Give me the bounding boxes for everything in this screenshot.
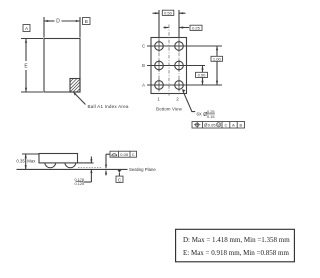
svg-text:0.25: 0.25 (192, 26, 201, 31)
datum B flag (83, 18, 91, 25)
svg-text:0.35: 0.35 (16, 159, 25, 164)
svg-text:0.50: 0.50 (164, 11, 173, 16)
svg-text:B: B (239, 122, 242, 127)
svg-text:0.05: 0.05 (208, 122, 217, 127)
svg-text:A: A (232, 122, 235, 127)
svg-text:D: Max = 1.418 mm, Min =1.358: D: Max = 1.418 mm, Min =1.358 mm (183, 236, 290, 244)
side view ball 1 (45, 163, 56, 168)
notes box (176, 229, 295, 261)
dimension 0.178/0.125 ball height (75, 157, 94, 187)
row centerline B (147, 65, 205, 67)
svg-text:0.50: 0.50 (198, 73, 207, 78)
svg-text:Bottom View: Bottom View (156, 107, 182, 112)
dimension 1.00 row span (211, 46, 223, 85)
svg-text:E: Max = 0.918 mm, Min =0.858: E: Max = 0.918 mm, Min =0.858 mm (183, 249, 289, 257)
svg-text:Ball A1 Index Area: Ball A1 Index Area (88, 104, 129, 109)
ball A1 index area hatch (70, 79, 81, 93)
side view ball 2 (65, 163, 76, 168)
bottom view vertical centerline (168, 25, 170, 96)
dimension 0.50 row pitch (196, 66, 208, 86)
dimension 0.50 column pitch (153, 10, 186, 15)
svg-text:B: B (85, 19, 88, 24)
ball A1 index area label (73, 92, 129, 109)
dimension 0.35 Max (16, 154, 39, 169)
top view package outline (44, 39, 80, 93)
svg-text:0.05: 0.05 (120, 152, 129, 157)
tolerance zone dashed line (78, 166, 101, 168)
svg-text:C: C (224, 122, 227, 127)
svg-text:D: D (56, 19, 60, 25)
svg-text:C: C (132, 152, 135, 157)
svg-text:1.00: 1.00 (213, 57, 222, 62)
dimension E (21, 39, 43, 93)
svg-text:B: B (142, 63, 145, 68)
seating plane line (17, 168, 128, 170)
ball B1 (155, 59, 164, 72)
svg-text:0.125: 0.125 (75, 182, 85, 186)
svg-text:0.15: 0.15 (207, 114, 215, 119)
position tolerance feature control frame (192, 122, 245, 129)
datum A flag (23, 25, 30, 32)
ball C2 (175, 40, 184, 53)
row centerline A (147, 84, 222, 86)
svg-text:A: A (142, 83, 145, 88)
svg-text:Max: Max (27, 159, 36, 164)
bottom view column 2 centerline (178, 10, 180, 38)
ball B2 (175, 59, 184, 72)
svg-text:Seating Plane: Seating Plane (129, 167, 156, 172)
ball C1 (155, 40, 164, 53)
bottom view package outline (151, 38, 187, 94)
svg-text:M: M (217, 123, 220, 127)
ball A2 (175, 79, 184, 92)
dimension D (44, 17, 80, 38)
svg-text:6X: 6X (197, 111, 202, 116)
ball A1 (155, 79, 164, 92)
bottom view column 1 centerline (158, 10, 160, 38)
dimension 0.25 column offset (164, 25, 203, 30)
svg-text:C: C (142, 44, 145, 49)
flatness frame 0.05 C (105, 151, 137, 175)
side view package body (39, 154, 78, 163)
row centerline C (147, 45, 222, 47)
ball diameter note 6X 0.25/0.15 (182, 89, 215, 119)
datum C flag (116, 170, 123, 183)
